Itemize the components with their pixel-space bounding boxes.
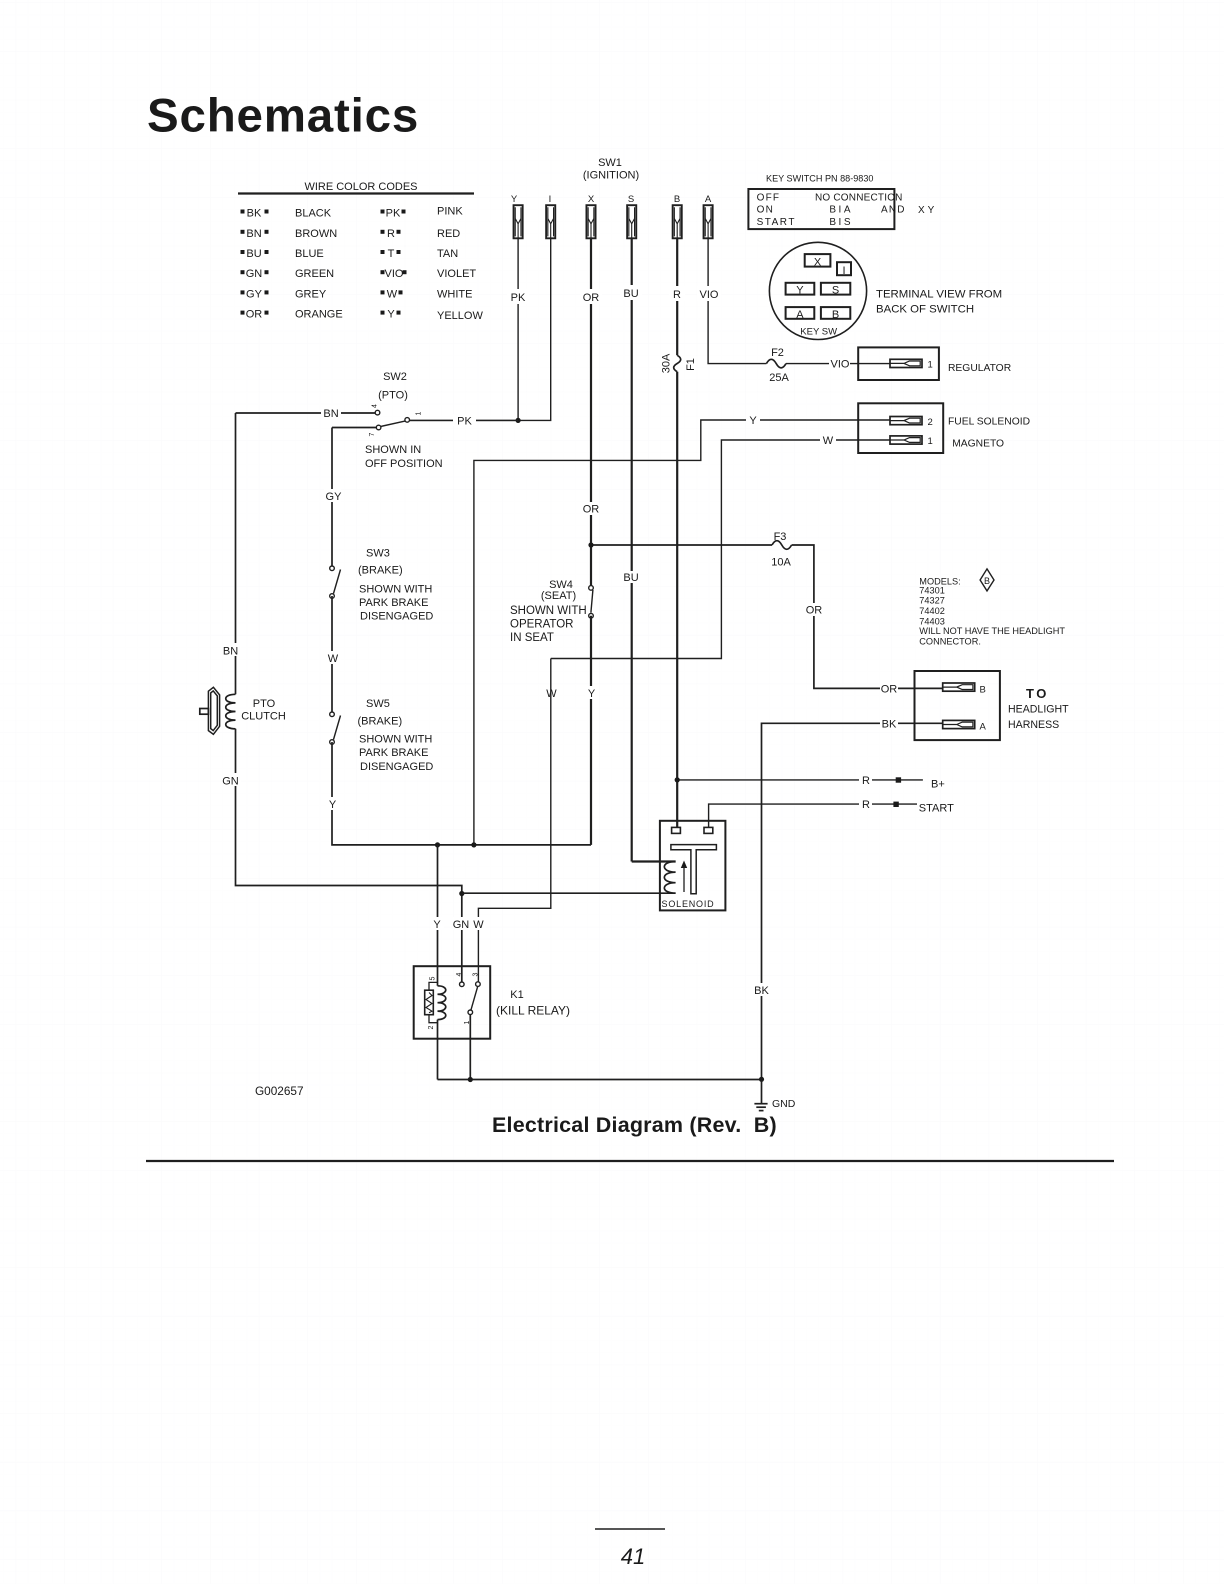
svg-text:4: 4 [456,972,463,976]
table col3 connector squares [381,210,407,315]
svg-text:Y: Y [387,309,395,321]
svg-text:(IGNITION): (IGNITION) [583,170,639,182]
switch SW3 brake [330,548,434,623]
svg-text:BLUE: BLUE [295,248,324,260]
wire START from solenoid pin [709,804,917,828]
fuse F2 25A [766,359,786,368]
K1 pin 1 pivot [468,1010,473,1015]
junction dot GN solenoid branch [459,891,464,896]
svg-text:Y: Y [588,688,596,700]
svg-text:W: W [473,919,484,931]
terminal A [786,307,815,319]
SW1 pin X [586,205,595,238]
wire Y from SW5 to bus [332,742,591,845]
svg-text:F1: F1 [685,358,697,371]
svg-text:X: X [588,194,595,205]
svg-text:GY: GY [326,491,343,503]
wire label BN left rail [223,643,241,656]
svg-text:BU: BU [623,572,638,584]
svg-text:FUEL SOLENOID: FUEL SOLENOID [948,417,1030,428]
svg-text:VIO: VIO [831,358,850,370]
headlight pin B [943,683,975,691]
terminal Y [786,283,815,295]
svg-text:RED: RED [437,228,460,240]
svg-text:OR: OR [583,504,600,516]
wire label BU mid [623,571,640,583]
svg-text:HARNESS: HARNESS [1008,719,1059,731]
wire label OR [580,289,602,304]
SW1 pin A [704,205,713,238]
table col4 color names [437,206,483,323]
svg-text:30A: 30A [661,353,673,373]
svg-text:GN: GN [453,919,470,931]
headlight harness connector [915,671,1070,740]
wire BK from headlight connector [762,723,943,1079]
SW1 pin I [546,205,555,238]
table col3 abbreviations PK R T VIO W Y [385,208,404,321]
svg-text:I: I [842,265,845,277]
svg-text:10A: 10A [771,557,791,569]
svg-text:TO: TO [1026,686,1049,701]
svg-text:BLACK: BLACK [295,208,332,220]
wire Y to fuel solenoid pin 2 [474,420,890,845]
svg-text:PARK BRAKE: PARK BRAKE [359,597,429,609]
SW3 bottom terminal [330,594,335,599]
svg-text:GND: GND [772,1098,796,1110]
wire label Y at fuel solenoid [746,414,760,426]
switch SW2 PTO [236,371,519,470]
key switch text OFF [757,193,938,229]
svg-text:Y: Y [796,285,804,297]
wire I vertical from SW1 pin I to PK junction [409,238,550,420]
svg-text:OR: OR [583,292,600,304]
svg-text:PK: PK [386,208,401,220]
wire label PK [507,289,529,304]
svg-text:A: A [980,722,987,733]
SW5 blade [334,716,341,740]
junction dot BK to bus [759,1077,764,1082]
SW4 blade [591,590,593,613]
solenoid pin left [672,827,681,833]
svg-text:OFF: OFF [757,193,781,204]
svg-text:1: 1 [416,411,423,415]
svg-text:R: R [387,228,395,240]
wire label W at K1 [471,917,486,930]
svg-text:START: START [757,217,796,228]
wire label GN left rail [223,773,241,786]
wire BU vertical from SW1 pin S [631,238,633,861]
wire VIO from fuse to regulator pin [786,363,890,365]
wire label W [324,651,341,664]
svg-text:VIOLET: VIOLET [437,268,476,280]
svg-text:OFF POSITION: OFF POSITION [365,458,443,470]
svg-text:BK: BK [754,985,769,997]
svg-text:74403: 74403 [919,616,945,626]
key switch data box [748,174,937,230]
svg-text:BU: BU [246,248,261,260]
svg-text:Y: Y [511,194,518,205]
left rail BN wire down to PTO clutch [235,413,237,694]
svg-text:ORANGE: ORANGE [295,309,343,321]
wire label OR vertical [806,603,822,616]
svg-text:GN: GN [222,776,239,788]
svg-text:SHOWN WITH: SHOWN WITH [359,733,432,745]
SW2 pin 7 [376,425,381,430]
svg-text:OR: OR [246,309,263,321]
K1 pin 1 wire down [469,1015,471,1080]
svg-text:(BRAKE): (BRAKE) [358,716,403,728]
svg-text:(SEAT): (SEAT) [541,590,576,602]
svg-text:YELLOW: YELLOW [437,310,483,322]
fuel solenoid and magneto connector [858,403,1030,453]
svg-text:R: R [673,289,681,301]
svg-text:Y: Y [329,799,337,811]
svg-text:F3: F3 [774,531,787,543]
svg-text:X: X [814,257,822,269]
SW3 blade [334,570,341,594]
wire label OR mid [583,502,599,515]
magneto pin 1 [890,436,922,444]
svg-text:Schematics: Schematics [147,90,419,143]
svg-text:SHOWN WITH: SHOWN WITH [510,605,587,617]
svg-text:(KILL RELAY): (KILL RELAY) [496,1004,570,1018]
svg-text:B: B [984,576,990,586]
wire VIO from SW1 pin A to regulator [708,238,766,363]
wire label W below magneto branch [544,686,559,699]
terminal S [821,283,850,295]
wire color codes table [238,181,483,322]
svg-text:BN: BN [223,646,238,658]
svg-text:SOLENOID: SOLENOID [662,899,715,909]
svg-text:GREEN: GREEN [295,268,334,280]
wire OR vertical from SW1 pin X [590,238,592,588]
fuel solenoid pin 2 [890,417,922,425]
svg-text:BACK OF SWITCH: BACK OF SWITCH [876,303,974,315]
svg-text:GN: GN [246,268,263,280]
svg-text:K1: K1 [510,989,523,1001]
svg-text:BIS: BIS [829,217,853,228]
svg-text:START: START [919,803,954,815]
wire label VIO [697,286,721,301]
switch SW5 brake [330,698,434,773]
connector square B+ [896,777,901,782]
svg-text:W: W [328,653,339,665]
svg-text:OPERATOR: OPERATOR [510,618,573,630]
SW5 bottom terminal [330,740,335,745]
switch SW1 ignition connector [511,157,713,238]
key switch box [748,189,894,229]
svg-text:74402: 74402 [919,606,945,616]
diamond callout B [980,569,994,591]
svg-text:R: R [862,799,870,811]
solenoid box [660,821,726,911]
connector square START [893,802,898,807]
K1 coil resistor [429,982,438,990]
wire label R on B+ wire [859,774,872,786]
svg-text:G002657: G002657 [255,1084,304,1098]
svg-text:GREY: GREY [295,288,327,300]
svg-text:SW5: SW5 [366,698,390,710]
svg-text:VIO: VIO [385,268,404,280]
svg-text:VIO: VIO [700,289,719,301]
relay K1 kill relay [414,966,570,1079]
svg-text:S: S [628,194,634,205]
wire label R on START wire [859,798,872,810]
svg-text:S: S [832,285,839,297]
PTO clutch stem [200,709,209,715]
wire PK from SW2 pin 1 [409,419,518,421]
svg-text:W: W [823,435,834,447]
svg-text:7: 7 [369,432,376,436]
wire label OR at headlight connector [880,682,898,694]
svg-text:BIA: BIA [829,205,853,216]
table col2 color names [295,208,343,321]
wire BN to SW2 pin 4 [236,412,376,414]
svg-text:B: B [832,309,839,321]
svg-text:PINK: PINK [437,206,463,218]
SW2 blade [381,421,405,426]
svg-text:WIRE COLOR CODES: WIRE COLOR CODES [304,181,417,193]
wire GN to solenoid coil [462,892,676,894]
svg-text:2: 2 [428,1025,435,1029]
SW1 pin B [673,205,682,238]
terminal view circle [769,242,866,339]
wire label Y below SW4 [585,686,598,699]
solenoid coil [664,862,675,894]
junction dot OR F3 [588,542,593,547]
svg-text:BU: BU [623,288,638,300]
terminal B [821,307,850,319]
svg-text:MAGNETO: MAGNETO [952,439,1004,450]
K1 coil [438,986,446,1020]
svg-text:WHITE: WHITE [437,288,472,300]
fuse F3 10A [772,541,792,550]
svg-text:BN: BN [323,408,338,420]
table rule [238,192,474,194]
junction dot bus Y-K1 [435,842,440,847]
svg-text:GY: GY [246,288,263,300]
svg-text:B+: B+ [931,778,945,790]
SW1 pin S [627,205,636,238]
svg-text:3: 3 [473,972,480,976]
left rail GN wire to bottom [236,729,462,894]
svg-text:BN: BN [246,228,261,240]
svg-text:WILL NOT HAVE THE HEADLIGHT: WILL NOT HAVE THE HEADLIGHT [919,626,1065,636]
svg-text:PTO: PTO [253,698,276,710]
svg-text:2: 2 [928,417,933,428]
K1 pin 3 [476,982,481,987]
svg-text:HEADLIGHT: HEADLIGHT [1008,704,1069,716]
svg-text:Y: Y [433,919,441,931]
wire Y drop to K1 coil [437,845,439,986]
svg-text:OR: OR [881,683,898,695]
SW2 pin 7 wire [332,427,376,429]
switch SW4 seat [510,579,593,644]
svg-text:W: W [546,688,557,700]
regulator connector [858,347,1011,380]
svg-text:BK: BK [882,718,897,730]
svg-text:W: W [387,288,398,300]
ground GND [754,1080,795,1111]
PTO clutch plate [208,687,219,734]
table col1 abbreviations BK BN BU GN GY OR [246,208,263,321]
note models without headlight connector [919,576,1065,646]
svg-text:DISENGAGED: DISENGAGED [360,761,433,773]
svg-text:B: B [674,194,680,205]
svg-text:41: 41 [621,1544,645,1569]
svg-text:74301: 74301 [919,585,945,595]
SW3 top terminal [330,566,335,571]
svg-text:T: T [388,248,395,260]
wire B+ from R line [677,779,923,781]
svg-text:IN SEAT: IN SEAT [510,632,554,644]
wire W between SW3 and SW5 [331,596,333,714]
junction dot K1 pin1 to bus [468,1077,473,1082]
wire label W at magneto [820,434,836,446]
svg-text:PK: PK [457,415,472,427]
wire label Y at K1 [431,917,444,930]
fuse F1 30A [674,355,681,371]
wire F3 feed from OR junction [591,544,772,546]
wire label GY [324,489,341,502]
wire label GN at K1 [452,917,471,930]
svg-text:XY: XY [918,205,937,216]
junction dot PK [516,418,521,423]
wire label BK vertical [753,983,770,996]
SW1 pin Y [514,205,523,238]
wire R vertical below F1 to solenoid [676,372,678,828]
wire PK vertical from SW1 pin Y [517,238,519,420]
K1 coil wire down [437,1020,439,1080]
SW2 pin 1 [405,418,410,423]
svg-text:Y: Y [749,415,757,427]
K1 blade [471,986,478,1010]
svg-text:1: 1 [928,436,933,447]
regulator pin 1 [890,359,922,367]
svg-text:BK: BK [247,208,262,220]
svg-text:A: A [705,194,712,205]
svg-text:OR: OR [806,605,823,617]
svg-text:A: A [796,309,804,321]
wire W drop to K1 pin 3 [478,659,550,983]
svg-text:SW3: SW3 [366,548,390,560]
svg-text:4: 4 [372,404,379,408]
svg-text:(BRAKE): (BRAKE) [358,565,403,577]
solenoid [660,821,726,911]
wire label BU [620,285,642,300]
svg-text:5: 5 [430,976,437,980]
SW4 bottom terminal [589,613,594,618]
svg-text:PK: PK [511,292,526,304]
junction dot bus fuel-Y [471,842,476,847]
svg-text:25A: 25A [769,372,789,384]
svg-text:AND: AND [881,205,906,216]
wire W to magneto pin 1 [551,440,890,659]
svg-text:CLUTCH: CLUTCH [241,710,286,722]
svg-text:SHOWN WITH: SHOWN WITH [359,583,432,595]
svg-text:TAN: TAN [437,248,458,260]
K1 pin 4 [460,982,465,987]
svg-text:ON: ON [757,205,774,216]
svg-text:BROWN: BROWN [295,228,337,240]
svg-text:SW1: SW1 [598,157,622,169]
terminal I [837,262,851,275]
page number rule [595,1528,665,1530]
footer rule [146,1160,1114,1162]
table col1 connector squares [241,210,269,315]
svg-text:R: R [862,775,870,787]
solenoid plunger T [671,845,717,894]
svg-text:74327: 74327 [919,595,945,605]
junction dot B+ tap [675,777,680,782]
wire label BK at headlight connector [880,717,898,729]
solenoid arrow [683,864,685,892]
PTO clutch [200,687,286,734]
wire label R [669,286,685,301]
svg-text:F2: F2 [771,347,784,359]
ground bus [438,1079,762,1081]
svg-text:1: 1 [928,360,933,371]
wire Y from SW4 down to bus [590,616,592,845]
SW5 top terminal [330,712,335,717]
svg-text:B: B [980,684,986,695]
svg-text:KEY SWITCH PN 88-9830: KEY SWITCH PN 88-9830 [766,174,873,184]
svg-text:NO CONNECTION: NO CONNECTION [815,193,903,204]
K1 box [414,966,491,1038]
svg-text:I: I [549,194,552,205]
svg-text:CONNECTOR.: CONNECTOR. [919,636,981,646]
svg-text:Electrical Diagram (Rev. B): Electrical Diagram (Rev. B) [492,1113,777,1137]
wire OR from F3 to headlight connector [792,545,943,688]
svg-text:REGULATOR: REGULATOR [948,363,1011,374]
svg-text:PARK BRAKE: PARK BRAKE [359,747,429,759]
terminal X [805,254,831,267]
wire label VIO at regulator [829,357,850,369]
solenoid pin right [704,827,713,833]
SW4 top terminal [589,586,594,591]
wire GY from SW2 pin 7 down the brake chain [331,428,333,569]
svg-text:SHOWN IN: SHOWN IN [365,444,421,456]
SW2 pin 4 [375,410,380,415]
PTO clutch coil [226,694,236,728]
svg-text:SW2: SW2 [383,371,407,383]
wire label Y [326,797,339,810]
svg-text:TERMINAL VIEW FROM: TERMINAL VIEW FROM [876,289,1002,301]
svg-text:KEY SW: KEY SW [800,326,837,337]
wire BU to solenoid coil [632,860,676,862]
svg-text:DISENGAGED: DISENGAGED [360,611,433,623]
key switch terminal view [769,242,1002,339]
svg-text:(PTO): (PTO) [378,390,408,402]
headlight pin A [943,720,975,728]
wire R vertical from SW1 pin B with fuse gap [676,238,678,355]
wire GN drop to K1 pin 4 [461,894,463,983]
